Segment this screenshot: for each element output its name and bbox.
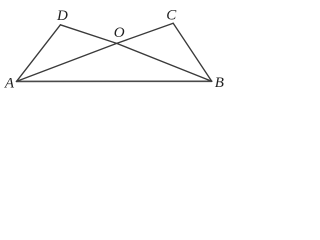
svg-text:A: A [4,75,15,91]
svg-text:C: C [166,7,177,23]
segment DB through node O [60,25,211,82]
segment CB [173,23,212,81]
segment AD [17,25,61,82]
segment AB [17,80,212,82]
svg-text:D: D [56,8,68,24]
svg-text:O: O [114,25,125,41]
segment AC through node O [17,23,174,81]
svg-text:B: B [215,75,224,91]
